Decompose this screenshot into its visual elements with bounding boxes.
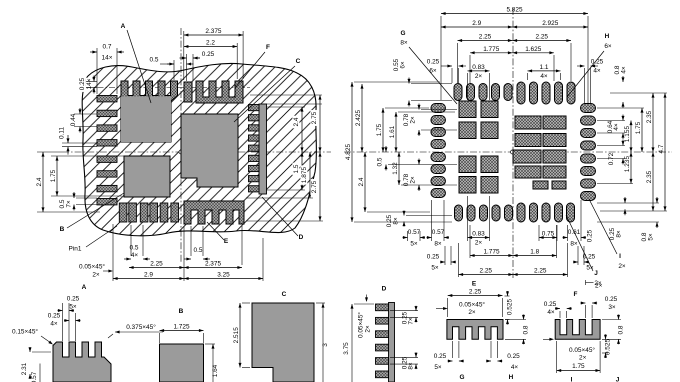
svg-text:0.83: 0.83 <box>472 64 485 71</box>
dim 1.8 bottom <box>513 255 557 257</box>
dim 4.825 <box>351 82 353 222</box>
svg-text:2×: 2× <box>475 73 483 80</box>
svg-text:4.7: 4.7 <box>658 144 665 153</box>
svg-text:7×: 7× <box>66 200 73 208</box>
dim 0.5 rf-left <box>385 146 387 152</box>
svg-text:0.44: 0.44 <box>70 113 77 126</box>
svg-text:2.25: 2.25 <box>469 289 482 296</box>
svg-text:8×: 8× <box>408 362 415 370</box>
dim 2.35 upper <box>652 93 654 152</box>
dim 0.5 bottom <box>184 258 191 260</box>
detail F top 2x <box>586 282 594 284</box>
svg-text:B: B <box>179 308 184 315</box>
dim 0.78 2x lower <box>418 159 420 165</box>
detail D dim 3.75 <box>351 304 353 382</box>
detail F dim 0.525 <box>605 334 607 339</box>
svg-text:8×: 8× <box>434 241 442 248</box>
svg-text:2.9: 2.9 <box>144 272 153 279</box>
dim 0.25 top <box>180 57 187 59</box>
horizontal centerline <box>62 151 331 153</box>
right fig center marker <box>511 150 515 154</box>
detail D dim 0.25 8x <box>415 352 417 357</box>
svg-text:0.5: 0.5 <box>194 247 203 254</box>
dim 1.235 <box>630 152 632 184</box>
svg-text:0.57: 0.57 <box>408 229 421 236</box>
svg-text:2.4: 2.4 <box>293 117 300 126</box>
svg-text:2×: 2× <box>618 263 626 270</box>
left pad column (8 ovals) <box>431 104 446 113</box>
svg-text:2×: 2× <box>475 240 483 247</box>
top pad row H (5 tall ovals) <box>517 82 525 104</box>
detail E dim 0.525 <box>507 291 509 296</box>
dim 2.375 bottom <box>184 267 242 269</box>
detail E dim 2.25 <box>448 295 503 297</box>
svg-text:8×: 8× <box>400 40 408 47</box>
svg-text:5.825: 5.825 <box>506 7 523 14</box>
svg-text:0.25: 0.25 <box>67 296 80 303</box>
svg-text:0.5: 0.5 <box>377 157 384 166</box>
dim 0.57 8x <box>427 237 432 239</box>
svg-text:0.25: 0.25 <box>427 59 440 66</box>
svg-text:2×: 2× <box>410 116 417 124</box>
dim 0.25 8x left <box>403 211 405 216</box>
dim 1.775 bottom <box>470 255 513 257</box>
pad F (top-right comb, teeth up) <box>196 81 243 103</box>
svg-text:I: I <box>619 253 621 260</box>
svg-text:2.4: 2.4 <box>36 177 43 186</box>
detail A dim 2.31 <box>29 347 31 352</box>
svg-text:4×: 4× <box>511 364 519 371</box>
svg-text:0.25: 0.25 <box>583 254 596 261</box>
detail D dim 0.25 7x <box>415 306 417 311</box>
svg-text:4×: 4× <box>593 68 601 75</box>
dim 2.25 bottom-left <box>459 274 514 276</box>
svg-text:0.05×45°: 0.05×45° <box>459 301 485 309</box>
svg-text:0.525: 0.525 <box>507 299 514 316</box>
svg-text:2×: 2× <box>92 272 100 279</box>
detail F dim 0.25 3x <box>580 302 585 304</box>
dim 2.4 right <box>301 107 303 152</box>
detail B dim 1.725 <box>160 330 204 332</box>
dim 0.83 2x bottom <box>468 237 490 239</box>
svg-text:1.75: 1.75 <box>572 363 585 370</box>
left pad column (8 small pads) <box>97 96 117 102</box>
svg-text:0.25: 0.25 <box>507 353 520 360</box>
dim 0.25 5x br <box>573 261 578 263</box>
svg-text:0.61: 0.61 <box>568 229 581 236</box>
svg-text:1.775: 1.775 <box>483 46 500 53</box>
svg-text:1.61: 1.61 <box>389 125 396 138</box>
svg-text:2.925: 2.925 <box>542 20 559 27</box>
detail E dim 0.25 5x <box>448 360 453 362</box>
svg-text:4.825: 4.825 <box>345 144 352 161</box>
dim 2.25 bottom <box>129 267 184 269</box>
svg-text:0.72: 0.72 <box>608 152 615 165</box>
svg-text:6×: 6× <box>429 68 437 75</box>
svg-text:H: H <box>605 33 610 40</box>
svg-text:E: E <box>224 238 229 245</box>
svg-text:8×: 8× <box>616 230 623 238</box>
detail A dim 0.25 5x <box>58 310 63 312</box>
bottom pad row right (5 ovals) <box>517 203 525 222</box>
dim 1.75 rf-right <box>641 108 643 152</box>
pad E (bottom comb, slots open down) <box>184 201 244 224</box>
svg-text:G: G <box>400 30 405 37</box>
svg-text:C: C <box>296 58 301 65</box>
svg-text:2.375: 2.375 <box>205 28 222 35</box>
svg-text:8×: 8× <box>393 217 400 225</box>
svg-text:1.775: 1.775 <box>483 249 500 256</box>
svg-text:3.25: 3.25 <box>217 272 230 279</box>
svg-text:2×: 2× <box>579 355 587 362</box>
svg-text:E: E <box>472 281 477 288</box>
dim 2.4 rf-left <box>364 152 366 212</box>
dim 0.25 14x left <box>93 76 95 82</box>
svg-text:2.9: 2.9 <box>472 20 481 27</box>
svg-text:4×: 4× <box>613 123 620 131</box>
svg-text:3: 3 <box>322 343 329 347</box>
dim 1.155 <box>630 121 632 153</box>
svg-text:1.235: 1.235 <box>624 156 631 173</box>
svg-text:2×: 2× <box>365 325 372 333</box>
svg-text:1.32: 1.32 <box>392 162 399 175</box>
svg-text:2.25: 2.25 <box>535 34 548 41</box>
dim 0.83 2x top <box>468 70 490 72</box>
svg-text:0.57: 0.57 <box>31 371 38 382</box>
svg-text:0.25: 0.25 <box>544 301 557 308</box>
detail F dim 0.8 <box>618 315 620 320</box>
svg-text:2×: 2× <box>410 176 417 184</box>
svg-text:J: J <box>616 377 620 382</box>
svg-text:A: A <box>82 284 87 291</box>
svg-text:5×: 5× <box>431 265 439 272</box>
dim 2.925 <box>513 26 589 28</box>
pad D (right vertical comb, teeth left) <box>259 104 267 194</box>
pad B (lower-left square pad) <box>124 156 170 197</box>
svg-text:0.11: 0.11 <box>59 127 66 139</box>
svg-text:0.25: 0.25 <box>202 51 215 58</box>
svg-text:5×: 5× <box>648 233 655 241</box>
dim 1.5 right <box>301 152 303 190</box>
detail F left arrow <box>543 338 552 340</box>
dim 0.57 5x <box>403 237 408 239</box>
svg-text:0.25: 0.25 <box>48 313 61 320</box>
detail F dim 0.25 4x <box>555 308 560 310</box>
dim 2.25 top-right <box>513 40 572 42</box>
svg-text:4×: 4× <box>50 321 58 328</box>
detail D comb (teeth left) <box>389 303 395 382</box>
svg-text:6×: 6× <box>604 43 612 50</box>
svg-text:2.31: 2.31 <box>21 362 28 375</box>
svg-text:4×: 4× <box>131 252 139 259</box>
detail A dim 0.25 4x <box>64 320 69 322</box>
svg-text:4×: 4× <box>621 66 628 74</box>
dim 2.9 right-fig <box>441 26 513 28</box>
dim 0.78 2x upper <box>418 104 420 110</box>
svg-text:0.375×45°: 0.375×45° <box>126 323 156 331</box>
dim 4.7 <box>664 93 666 211</box>
dim 3.25 <box>184 278 263 280</box>
svg-text:2.2: 2.2 <box>206 40 215 47</box>
svg-text:H: H <box>509 374 514 381</box>
dim 2.25 top-left <box>458 40 513 42</box>
svg-text:1.75: 1.75 <box>635 121 642 134</box>
svg-text:F: F <box>574 291 578 298</box>
dim 0.44 <box>79 108 81 114</box>
dim 0.5 top <box>167 63 174 65</box>
center marker circle <box>179 150 183 154</box>
svg-text:1.1: 1.1 <box>540 64 549 71</box>
detail C dim 3 <box>322 303 324 382</box>
svg-text:2×: 2× <box>468 309 476 316</box>
svg-text:2.25: 2.25 <box>150 261 163 268</box>
dim 0.55 6x <box>408 78 410 84</box>
svg-text:1.725: 1.725 <box>173 324 190 331</box>
dim 1.625 top <box>513 52 555 54</box>
ext lines right <box>266 100 268 104</box>
svg-text:2.515: 2.515 <box>233 327 240 344</box>
dim 0.64 4x <box>622 115 624 121</box>
svg-text:0.57: 0.57 <box>432 229 445 236</box>
svg-text:0.25: 0.25 <box>434 353 447 360</box>
detail F comb pad (teeth up) <box>555 320 600 340</box>
dim 0.25 5x bl <box>440 261 445 263</box>
svg-text:1.75: 1.75 <box>50 169 57 182</box>
svg-text:2.75: 2.75 <box>311 180 318 193</box>
svg-text:0.8: 0.8 <box>618 325 625 334</box>
detail B dim 1.64 <box>212 344 214 382</box>
svg-text:8×: 8× <box>570 241 578 248</box>
dim 1.61 <box>395 112 397 152</box>
dim 2.9 <box>113 278 184 280</box>
svg-text:14×: 14× <box>102 55 113 62</box>
svg-text:5×: 5× <box>586 265 594 272</box>
svg-text:0.75: 0.75 <box>542 231 555 238</box>
detail C dim 2.515 <box>239 303 241 368</box>
dim 2.75 lower right <box>319 152 321 221</box>
dim 2.425 <box>361 84 363 152</box>
lower-left square pad group (2x2) <box>459 156 476 173</box>
vertical centerline <box>180 28 182 262</box>
svg-text:2.35: 2.35 <box>646 110 653 123</box>
ext lines right-fig right <box>597 107 644 109</box>
svg-text:0.8: 0.8 <box>523 325 530 334</box>
small center pads (2) <box>533 181 548 189</box>
detail A dim right vline <box>39 364 41 382</box>
svg-text:B: B <box>60 226 65 233</box>
dim 2.35 lower <box>652 152 654 211</box>
dim 0.7 14x <box>90 51 97 53</box>
svg-text:2×: 2× <box>595 283 603 290</box>
ext lines right-fig bottom <box>407 231 409 241</box>
svg-text:3×: 3× <box>608 304 616 311</box>
dim 1.775 top <box>470 52 513 54</box>
svg-text:1.625: 1.625 <box>525 46 542 53</box>
pad A (top-left comb, teeth up) <box>121 81 178 142</box>
dim 0.8 4x top <box>622 76 624 82</box>
detail A ext lines <box>62 313 64 341</box>
dim 1.875 right <box>309 152 311 198</box>
svg-text:0.7: 0.7 <box>103 44 112 51</box>
solder mask area (hatched blob outline) <box>82 63 316 235</box>
dim 2.2 <box>184 46 237 48</box>
svg-text:1.5: 1.5 <box>293 164 300 173</box>
detail F dim 1.75 <box>557 370 601 372</box>
dim 0.25 8x right <box>624 197 626 203</box>
svg-text:0.05×45°: 0.05×45° <box>79 263 105 271</box>
svg-text:0.05×45°: 0.05×45° <box>569 346 595 354</box>
svg-text:5×: 5× <box>410 241 418 248</box>
right fig horizontal centerline <box>344 151 672 153</box>
svg-text:2.4: 2.4 <box>358 177 365 186</box>
ext lines top <box>183 31 185 80</box>
svg-text:1.155: 1.155 <box>624 126 631 143</box>
svg-text:2.25: 2.25 <box>479 34 492 41</box>
right fig vertical centerline <box>512 8 514 278</box>
svg-text:A: A <box>121 23 126 30</box>
svg-text:1.75: 1.75 <box>376 123 383 136</box>
upper-left square pad group (2x2) <box>459 101 476 118</box>
svg-text:G: G <box>459 374 464 381</box>
dim 1.75 left <box>56 156 58 196</box>
svg-text:0.5: 0.5 <box>130 245 139 252</box>
dim 2.4 left <box>42 152 44 212</box>
detail B pad <box>160 344 204 382</box>
svg-text:0.25: 0.25 <box>605 296 618 303</box>
svg-text:0.525: 0.525 <box>605 339 612 356</box>
svg-text:0.15×45°: 0.15×45° <box>12 328 38 336</box>
svg-text:5×: 5× <box>434 364 442 371</box>
dim 1.32 <box>398 152 400 185</box>
svg-text:0.25: 0.25 <box>79 77 86 90</box>
ext lines right-fig top <box>440 16 442 100</box>
svg-text:4×: 4× <box>547 309 555 316</box>
small pad (top middle) <box>184 82 192 102</box>
svg-text:0.83: 0.83 <box>472 231 485 238</box>
svg-text:0.25: 0.25 <box>587 229 594 242</box>
detail A comb shape <box>53 342 111 382</box>
dim 0.25 rot bottom <box>587 229 594 242</box>
dim 0.72 <box>622 140 624 146</box>
bottom pad row left (5 ovals) <box>455 205 463 221</box>
detail D dim 0.05x45 2x <box>357 312 365 338</box>
dim 5.825 <box>441 13 588 15</box>
svg-text:3.75: 3.75 <box>343 342 350 355</box>
svg-text:7×: 7× <box>408 317 415 325</box>
pad C (large right pad with notch) <box>181 114 238 187</box>
ext lines bottom <box>112 224 114 281</box>
dim 1.75 rf-left <box>382 108 384 152</box>
svg-text:4×: 4× <box>540 73 548 80</box>
detail E comb pad (slots down) <box>447 320 503 340</box>
detail E dim 0.8 <box>523 315 525 320</box>
dim 2.75 upper right <box>319 95 321 152</box>
svg-text:D: D <box>299 234 304 241</box>
extension line y=87.5 <box>86 87 250 89</box>
dim 0.61 8x <box>563 237 568 239</box>
svg-text:5×: 5× <box>69 304 77 311</box>
svg-text:0.25: 0.25 <box>427 254 440 261</box>
dim 0.5 7x left <box>73 192 75 198</box>
dim 1.1 4x <box>528 70 561 72</box>
svg-text:2.25: 2.25 <box>534 268 547 275</box>
dim 0.11 <box>67 135 69 143</box>
svg-text:Pin1: Pin1 <box>69 246 82 253</box>
svg-text:0.05×45°: 0.05×45° <box>357 312 365 338</box>
svg-text:2.425: 2.425 <box>355 110 362 127</box>
svg-text:I: I <box>571 377 573 382</box>
ext lines right-fig left <box>411 83 452 85</box>
right pad column (8 ovals) <box>581 104 596 113</box>
dim 0.75 <box>539 237 557 239</box>
svg-text:2.375: 2.375 <box>205 261 222 268</box>
svg-text:D: D <box>382 286 387 293</box>
dim 2.25 bottom-right <box>513 274 568 276</box>
dim 2.375 <box>184 34 243 36</box>
detail E ext lines below <box>452 341 454 358</box>
svg-text:F: F <box>266 44 270 51</box>
svg-text:2.35: 2.35 <box>646 170 653 183</box>
svg-text:2.75: 2.75 <box>311 111 318 124</box>
bottom pad row (6 small pads) <box>119 203 127 222</box>
svg-text:1.64: 1.64 <box>212 364 219 377</box>
center rectangular pad group (4x2) <box>515 116 541 129</box>
svg-text:2.25: 2.25 <box>479 268 492 275</box>
detail E dim 0.25 4x <box>486 360 491 362</box>
detail C pad <box>252 303 314 382</box>
svg-text:J: J <box>594 270 598 277</box>
dim 0.5 4x bottom <box>124 258 131 260</box>
svg-text:6×: 6× <box>400 61 407 69</box>
svg-text:0.5: 0.5 <box>150 57 159 64</box>
svg-text:1.8: 1.8 <box>530 249 539 256</box>
svg-text:1.875: 1.875 <box>301 167 308 184</box>
dim 0.8 5x right <box>656 197 658 203</box>
svg-text:C: C <box>282 291 287 298</box>
top pad row G (5 short ovals) <box>454 84 462 101</box>
